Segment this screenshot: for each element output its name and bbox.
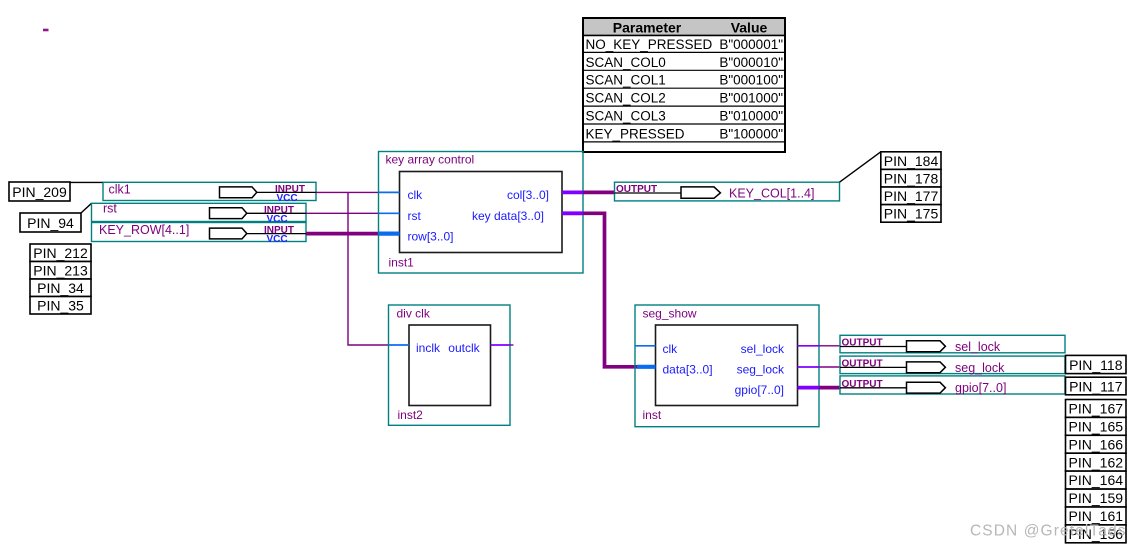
output port KEY_COL[1..4] bbox=[615, 182, 840, 201]
svg-text:inst: inst bbox=[643, 408, 662, 422]
pin stub clk (input) bbox=[379, 191, 400, 193]
svg-text:PIN_213: PIN_213 bbox=[33, 263, 88, 279]
input port rst bbox=[92, 202, 307, 225]
svg-text:B"100000": B"100000" bbox=[719, 126, 783, 141]
wire net rst bbox=[306, 212, 379, 214]
svg-text:outclk: outclk bbox=[448, 341, 480, 355]
wire branch clk1 down to div clk bbox=[348, 192, 389, 345]
svg-text:VCC: VCC bbox=[276, 193, 297, 204]
svg-text:sel_lock: sel_lock bbox=[955, 340, 1001, 354]
svg-text:seg_show: seg_show bbox=[643, 307, 697, 321]
svg-text:B"010000": B"010000" bbox=[719, 109, 783, 124]
block div clk outer bbox=[389, 305, 511, 425]
svg-text:OUTPUT: OUTPUT bbox=[842, 359, 883, 370]
pin stub sel_lock (output) bbox=[798, 345, 820, 347]
svg-text:PIN_167: PIN_167 bbox=[1069, 401, 1124, 417]
svg-text:sel_lock: sel_lock bbox=[741, 342, 785, 356]
wire stump outclk bbox=[510, 344, 514, 346]
pin stub clk (input) bbox=[635, 345, 656, 347]
svg-text:PIN_117: PIN_117 bbox=[1069, 378, 1123, 394]
svg-text:clk: clk bbox=[663, 342, 679, 356]
pin assignment box PIN_117 bbox=[1066, 377, 1127, 395]
svg-text:rst: rst bbox=[103, 202, 117, 216]
pin stub gpio[7..0] (output bus) bbox=[798, 386, 820, 390]
pin stub rst (input) bbox=[379, 212, 400, 214]
svg-text:B"000010": B"000010" bbox=[719, 55, 783, 70]
bus net KEY_ROW bbox=[306, 232, 379, 236]
block seg_show body U3 bbox=[656, 325, 798, 406]
svg-text:gpio[7..0]: gpio[7..0] bbox=[955, 381, 1006, 395]
svg-text:KEY_PRESSED: KEY_PRESSED bbox=[586, 126, 685, 141]
svg-text:PIN_166: PIN_166 bbox=[1069, 436, 1124, 452]
svg-text:PIN_34: PIN_34 bbox=[37, 280, 84, 296]
svg-text:PIN_164: PIN_164 bbox=[1069, 472, 1124, 488]
svg-text:gpio[7..0]: gpio[7..0] bbox=[735, 383, 784, 397]
svg-text:Value: Value bbox=[731, 20, 768, 36]
svg-text:OUTPUT: OUTPUT bbox=[842, 338, 883, 349]
svg-text:seg_lock: seg_lock bbox=[737, 363, 785, 377]
svg-text:KEY_ROW[4..1]: KEY_ROW[4..1] bbox=[99, 223, 189, 237]
block div clk body U2 bbox=[409, 325, 491, 406]
output port gpio[7..0] bbox=[840, 376, 1065, 395]
output port seg_lock bbox=[840, 356, 1065, 375]
svg-text:rst: rst bbox=[408, 209, 422, 223]
decorative purple dash top-left bbox=[43, 29, 49, 32]
svg-text:SCAN_COL2: SCAN_COL2 bbox=[586, 91, 666, 106]
pin stub data[3..0] (input bus) bbox=[637, 365, 656, 369]
svg-text:PIN_177: PIN_177 bbox=[884, 188, 939, 204]
bus net keydata to seg_show bbox=[583, 213, 637, 366]
svg-text:row[3..0]: row[3..0] bbox=[408, 229, 454, 243]
pin assignment group PIN_184 PIN_178 PIN_177 PIN_175 bbox=[881, 152, 941, 222]
input port KEY_ROW[4..1] bbox=[92, 223, 307, 246]
pin assignment box PIN_94 bbox=[20, 213, 81, 232]
svg-text:data[3..0]: data[3..0] bbox=[663, 363, 713, 377]
bus net gpio[7..0] bbox=[819, 386, 840, 390]
connector line PIN_209 to clk1 port bbox=[70, 181, 103, 183]
pin stub col[3..0] (output bus) bbox=[562, 190, 583, 194]
pin stub inclk (input) bbox=[389, 344, 409, 346]
wire net sel_lock bbox=[819, 345, 840, 347]
block key array control body U1 bbox=[400, 172, 563, 253]
parameter table bbox=[583, 18, 785, 152]
pin stub seg_lock (output) bbox=[798, 366, 820, 368]
svg-text:SCAN_COL1: SCAN_COL1 bbox=[586, 73, 666, 88]
svg-text:PIN_162: PIN_162 bbox=[1069, 454, 1124, 470]
svg-text:div clk: div clk bbox=[397, 307, 431, 321]
pin assignment box PIN_118 bbox=[1066, 355, 1127, 373]
svg-text:PIN_118: PIN_118 bbox=[1069, 357, 1123, 373]
block key array control outer bbox=[379, 152, 584, 274]
svg-text:inst1: inst1 bbox=[389, 256, 415, 270]
svg-text:PIN_159: PIN_159 bbox=[1069, 490, 1124, 506]
pin assignment group PIN_167..PIN_156 bbox=[1066, 400, 1127, 543]
svg-text:CSDN @GretelTads: CSDN @GretelTads bbox=[970, 523, 1127, 540]
block seg_show outer bbox=[635, 305, 819, 427]
svg-text:SCAN_COL3: SCAN_COL3 bbox=[586, 109, 666, 124]
wire net seg_lock bbox=[819, 366, 840, 368]
svg-text:KEY_COL[1..4]: KEY_COL[1..4] bbox=[729, 186, 814, 200]
svg-text:SCAN_COL0: SCAN_COL0 bbox=[586, 55, 666, 70]
wire net clk1 bbox=[316, 191, 379, 193]
svg-text:clk1: clk1 bbox=[109, 183, 131, 197]
svg-text:PIN_212: PIN_212 bbox=[33, 245, 88, 261]
pin stub row[3..0] (input bus) bbox=[379, 232, 400, 236]
svg-text:PIN_165: PIN_165 bbox=[1069, 419, 1124, 435]
svg-text:clk: clk bbox=[408, 188, 424, 202]
svg-text:B"000001": B"000001" bbox=[719, 37, 783, 52]
svg-text:inst2: inst2 bbox=[398, 408, 424, 422]
pin stub outclk (output) bbox=[491, 344, 511, 346]
svg-text:B"000100": B"000100" bbox=[719, 73, 783, 88]
svg-text:inclk: inclk bbox=[416, 341, 441, 355]
svg-text:VCC: VCC bbox=[266, 234, 287, 245]
input port clk1 bbox=[103, 182, 316, 204]
svg-text:OUTPUT: OUTPUT bbox=[842, 379, 883, 390]
svg-text:PIN_178: PIN_178 bbox=[884, 170, 939, 186]
svg-text:PIN_35: PIN_35 bbox=[37, 298, 84, 314]
svg-text:NO_KEY_PRESSED: NO_KEY_PRESSED bbox=[586, 37, 713, 52]
svg-text:PIN_209: PIN_209 bbox=[12, 184, 67, 200]
bus net col[3..0] bbox=[583, 191, 615, 195]
connector line KEY_COL port to PIN_184 group bbox=[840, 152, 881, 182]
svg-text:PIN_175: PIN_175 bbox=[884, 206, 939, 222]
svg-text:key data[3..0]: key data[3..0] bbox=[472, 209, 544, 223]
svg-text:seg_lock: seg_lock bbox=[955, 361, 1005, 375]
svg-text:key array control: key array control bbox=[386, 153, 475, 167]
svg-text:OUTPUT: OUTPUT bbox=[616, 184, 657, 195]
pin stub keydata[3..0] (output bus) bbox=[562, 211, 583, 215]
connector line PIN_94 to rst port bbox=[81, 203, 92, 213]
svg-text:PIN_184: PIN_184 bbox=[884, 153, 939, 169]
svg-text:B"001000": B"001000" bbox=[719, 91, 783, 106]
pin assignment box PIN_209 bbox=[9, 182, 70, 201]
svg-text:PIN_94: PIN_94 bbox=[27, 215, 74, 231]
output port sel_lock bbox=[840, 335, 1065, 354]
pin assignment group PIN_212 PIN_213 PIN_34 PIN_35 bbox=[30, 244, 91, 314]
svg-text:col[3..0]: col[3..0] bbox=[507, 188, 549, 202]
svg-text:Parameter: Parameter bbox=[613, 20, 682, 36]
